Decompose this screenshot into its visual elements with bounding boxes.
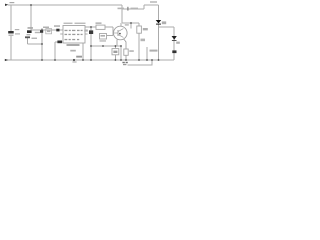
- label L1: [143, 28, 148, 30]
- wire R1 to base corner: [105, 26, 113, 28]
- node (147,60): [146, 59, 148, 61]
- label D3: [84, 30, 88, 32]
- diode D6 triangle: [172, 36, 177, 40]
- label below rail x72: [72, 61, 76, 62]
- label RV1 value: [27, 34, 31, 35]
- capacitor C4 body on x42: [40, 30, 43, 33]
- wire Q1 left leg: [116, 40, 118, 46]
- wire x131 collector: [130, 23, 132, 29]
- transistor Q1 center dot: [119, 33, 121, 35]
- node (152,60): [151, 59, 153, 61]
- node (115,60): [115, 59, 117, 61]
- label D1: [54, 25, 60, 27]
- node (139,60): [138, 59, 140, 61]
- label near x139 low: [141, 39, 146, 42]
- node (31,5): [30, 4, 32, 6]
- label Q1: [125, 24, 129, 25]
- fuse F1 tick: [127, 7, 129, 11]
- wire Q1 top lead: [120, 23, 122, 26]
- diode D3 body on x91: [89, 30, 93, 34]
- transistor Q1 emitter lead: [118, 34, 123, 37]
- transistor Q1 base bar: [117, 30, 119, 36]
- diode D6 bar: [172, 39, 177, 42]
- wire IC gnd x83: [82, 43, 84, 60]
- resistor R1 box: [96, 25, 105, 29]
- label AC top: [10, 2, 15, 3]
- node (91,46): [90, 45, 92, 47]
- wire sense R riser bottom: [114, 55, 116, 60]
- resistor R2 box: [46, 29, 52, 34]
- label above rail x77: [76, 56, 82, 58]
- label D6: [176, 42, 180, 44]
- label top mid right: [131, 8, 139, 10]
- capacitor C2 body: [25, 36, 30, 38]
- node (91,60): [90, 59, 92, 61]
- node (42,60): [41, 59, 43, 61]
- wire step up x144: [143, 5, 145, 9]
- node (55,60): [54, 59, 56, 61]
- IC U1 pin text row 3: [65, 39, 80, 40]
- capacitor C1 lower plate: [9, 35, 14, 36]
- wire x42 vertical: [41, 28, 43, 60]
- wire y44 link: [28, 43, 43, 45]
- wire x113 down to base: [112, 27, 114, 36]
- wire sense R riser top: [114, 46, 116, 48]
- wire bottom rail: [5, 59, 174, 61]
- wire below diode D5: [158, 25, 160, 61]
- node (103,46): [102, 45, 104, 47]
- node (115,46): [115, 45, 117, 47]
- capacitor C3 blob: [172, 50, 176, 53]
- wire y30 main: [32, 29, 64, 31]
- transistor Q1 base lead: [114, 32, 118, 34]
- diode D2 body: [57, 41, 62, 44]
- capacitor C1 body: [8, 31, 14, 34]
- IC U1 pin text row 1: [65, 30, 83, 31]
- label RV1: [28, 27, 34, 29]
- label above rail x150: [150, 50, 158, 52]
- label C1 value: [15, 33, 20, 34]
- inductor L1 box: [137, 26, 142, 33]
- sense resistor R4 box: [112, 49, 119, 55]
- AC input terminal bottom: [5, 59, 8, 61]
- wire y27 IC to R1: [85, 26, 96, 28]
- transistor Q1 circle: [114, 26, 128, 40]
- wire top rail left: [8, 4, 122, 6]
- IC U1 pin stub right y34: [85, 33, 88, 35]
- node (91,27): [90, 26, 92, 28]
- label R1: [96, 22, 102, 24]
- wire top rail right: [144, 4, 159, 6]
- wire base box2 link: [107, 35, 114, 37]
- label above U1: [64, 23, 73, 24]
- node (131,23): [130, 22, 132, 24]
- wire top rail mid y9: [122, 8, 144, 10]
- resistor R3 box: [100, 34, 107, 40]
- wire y27 to output column: [159, 26, 175, 28]
- IC U1 box: [63, 26, 85, 44]
- varistor RV1 body: [27, 30, 32, 33]
- AC input terminal top: [5, 4, 8, 6]
- wire vertical x31: [30, 5, 32, 30]
- node (74,60): [73, 59, 75, 61]
- wire vertical x11 input: [10, 5, 12, 31]
- label above rail x70: [70, 50, 76, 52]
- label U1 part number: [67, 44, 80, 46]
- label near x42: [43, 27, 49, 29]
- wire x27 below C2: [27, 38, 29, 44]
- wire x122 drive: [121, 9, 123, 23]
- node (42,30): [41, 29, 43, 31]
- node (42,44): [41, 43, 43, 45]
- label top mid left: [118, 8, 125, 10]
- label R5: [129, 50, 134, 52]
- wire y46: [91, 45, 121, 47]
- label under y30 line: [35, 32, 40, 33]
- label R4 inside: [113, 51, 117, 53]
- wire output column x174: [173, 27, 175, 60]
- IC U1 pin text row 2: [65, 34, 83, 35]
- wire Q1 right leg: [124, 39, 126, 49]
- IC U1 pin stub right y30: [85, 29, 88, 31]
- wire top rail step down: [121, 5, 123, 9]
- transistor Q1 collector lead: [118, 29, 123, 32]
- diode D1 body: [56, 29, 59, 32]
- diode D5 bar: [156, 24, 161, 25]
- wire y23: [122, 22, 139, 24]
- label C2: [32, 38, 38, 39]
- wire diode drop x158: [158, 5, 160, 20]
- node (121,46): [120, 45, 122, 47]
- wire below box5: [125, 55, 127, 60]
- label D5: [162, 21, 166, 24]
- wire x121 to rail: [120, 46, 122, 60]
- node (158,60): [158, 59, 160, 61]
- label top right: [150, 1, 157, 2]
- wire sub rail y65: [128, 60, 152, 65]
- node (126,60): [125, 59, 127, 61]
- diode D5 triangle: [156, 20, 162, 23]
- label C1: [15, 29, 19, 30]
- wire x55 down: [54, 42, 56, 60]
- IC U1 pin stub left y34: [60, 33, 63, 35]
- node (121,60): [120, 59, 122, 61]
- wire x91 vertical: [90, 27, 92, 60]
- wire x139 into box4: [138, 23, 140, 26]
- label below rail left marks: [122, 62, 124, 63]
- wire y42 to IC pin: [55, 41, 63, 43]
- wire x147: [146, 47, 148, 60]
- wire below C1: [10, 36, 12, 60]
- wire x139 below box4: [138, 33, 140, 60]
- resistor R5 box on x126: [124, 49, 128, 55]
- node (83,60): [82, 59, 84, 61]
